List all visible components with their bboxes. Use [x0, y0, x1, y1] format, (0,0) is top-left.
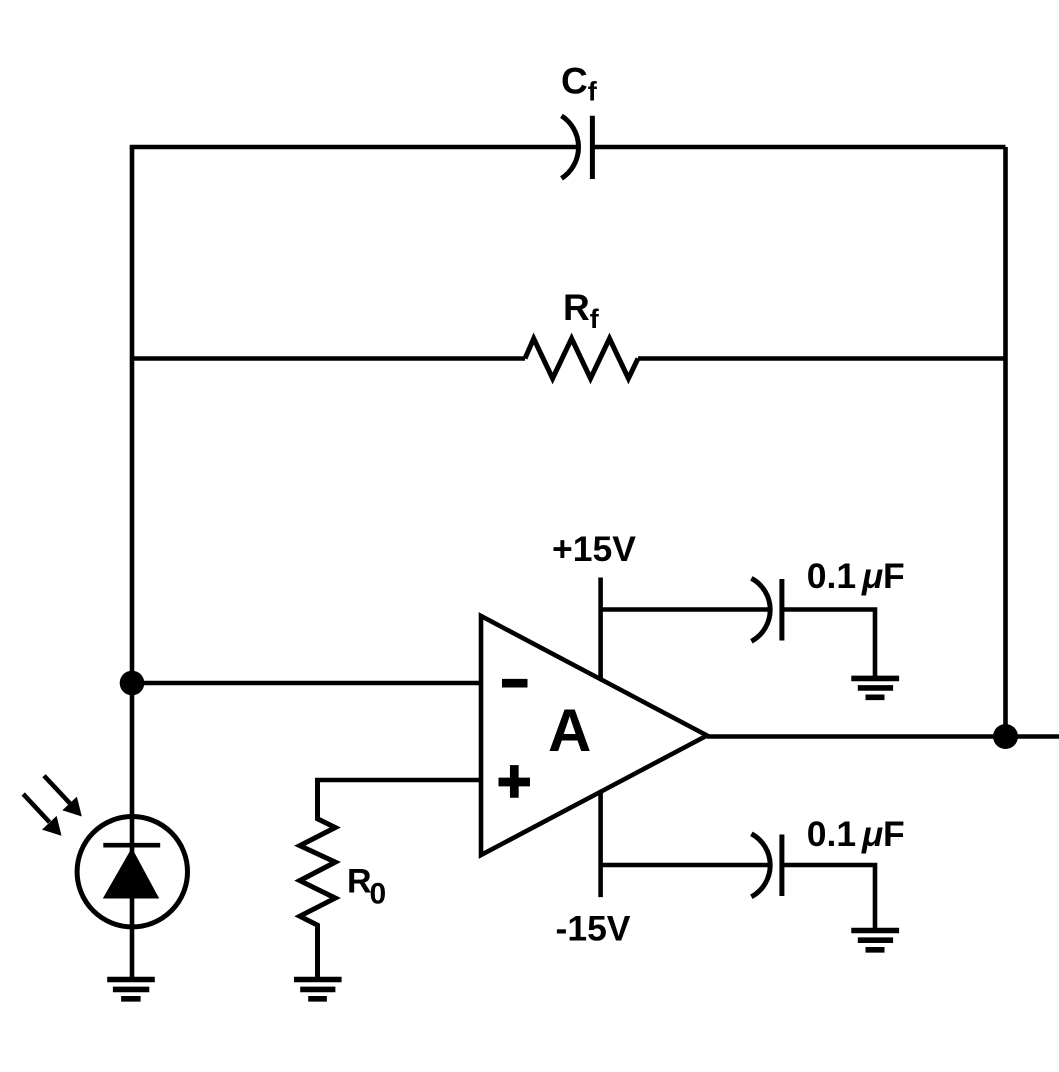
svg-text:A: A [548, 697, 591, 764]
photodiode D1 circle [77, 817, 187, 927]
wire bottom decoupling branch [601, 863, 770, 868]
svg-text:-15V: -15V [556, 909, 631, 949]
svg-text:F: F [883, 556, 905, 596]
wire Rf left segment [132, 356, 525, 361]
wire left vertical from Cf rail down to photodiode/ground [130, 147, 135, 980]
wire output from op-amp to right edge [707, 734, 1059, 739]
light arrow upper [44, 776, 82, 817]
node inverting input junction dot [120, 671, 145, 696]
svg-text:μ: μ [861, 815, 883, 854]
op-amp minus sign [502, 679, 528, 688]
light arrow lower [23, 794, 61, 836]
ground below photodiode [107, 980, 155, 999]
wire non-inverting input [315, 778, 481, 783]
resistor Rf [525, 339, 638, 379]
svg-text:0: 0 [370, 878, 387, 911]
wire +15V supply pin [598, 578, 603, 680]
wire bottom decoupling to ground [782, 865, 875, 930]
capacitor bottom 0.1uF [751, 834, 782, 897]
svg-text:R: R [347, 863, 372, 901]
svg-text:+15V: +15V [552, 529, 636, 569]
op-amp plus sign [499, 765, 531, 798]
label 0.1uF top [807, 556, 905, 596]
svg-text:F: F [883, 814, 905, 854]
wire right vertical rail (feedback) [1003, 147, 1008, 737]
node output junction dot [993, 724, 1018, 749]
wire inverting input [132, 681, 481, 686]
svg-text:μ: μ [861, 557, 883, 596]
resistor R0 [300, 780, 336, 982]
photodiode cathode bar [103, 843, 160, 848]
wire -15V supply pin [598, 792, 603, 897]
svg-text:0.1: 0.1 [807, 556, 856, 596]
capacitor Cf [562, 116, 593, 179]
ground bottom right [851, 931, 899, 950]
ground top right [851, 678, 899, 697]
wire top decoupling to ground [782, 610, 875, 679]
label 0.1uF bottom [807, 814, 905, 854]
photodiode anode triangle [103, 848, 159, 899]
wire top rail left segment to Cf [130, 145, 579, 150]
wire Rf right segment [638, 356, 1006, 361]
op-amp A triangle [481, 616, 707, 855]
wire top decoupling branch [601, 607, 770, 612]
svg-text:0.1: 0.1 [807, 814, 856, 854]
wire top rail right segment from Cf to right rail [592, 145, 1005, 150]
ground below R0 [294, 980, 342, 999]
capacitor top 0.1uF [751, 578, 782, 641]
